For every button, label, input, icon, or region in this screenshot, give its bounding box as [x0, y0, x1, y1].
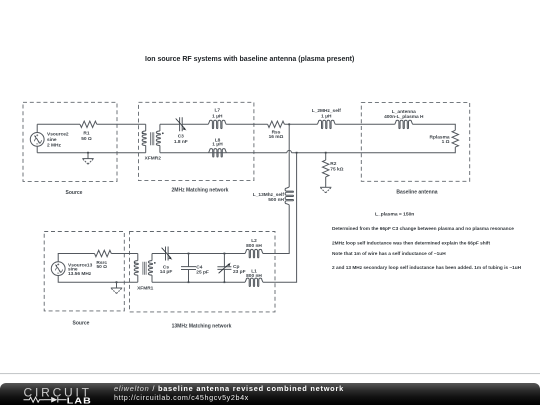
svg-text:800 nH: 800 nH: [246, 243, 262, 249]
wire source bottom bus: [37, 152, 146, 154]
svg-text:25 pF: 25 pF: [196, 270, 209, 276]
wire Rplasma bottom to bottom bus: [292, 147, 456, 153]
dashed box Source (top): [23, 102, 117, 181]
wire XFMR1 secondary bottom to L1: [152, 281, 245, 283]
svg-text:50 Ω: 50 Ω: [81, 136, 92, 142]
svg-text:sine: sine: [47, 137, 57, 143]
wire Rsrc to XFMR1: [111, 253, 138, 255]
wire C3 to L7: [182, 123, 208, 125]
inductor L8: [209, 138, 227, 157]
svg-text:Ion source RF systems with bas: Ion source RF systems with baseline ante…: [145, 56, 354, 63]
dashed box 13MHz Matching network: [130, 232, 276, 312]
wire vsource2 to R1: [37, 123, 80, 125]
svg-text:XFMR1: XFMR1: [137, 286, 154, 292]
transformer XFMR1: [134, 254, 156, 292]
node junction Cp top: [224, 253, 226, 255]
svg-text:500 nH: 500 nH: [268, 197, 284, 203]
svg-text:Cp: Cp: [233, 264, 239, 270]
svg-text:Determined from the 66pF C3 ch: Determined from the 66pF C3 change betwe…: [332, 226, 514, 232]
svg-text:L_13Mhz_self: L_13Mhz_self: [253, 192, 285, 198]
wire vsource13 top stub: [58, 254, 94, 262]
node junction bottom bus at vertical B: [296, 152, 298, 154]
footer bar: [0, 383, 540, 405]
wire L_antenna to Rplasma: [413, 124, 456, 130]
inductor L7: [208, 108, 226, 129]
resistor Rss: [268, 121, 285, 140]
dashed box Baseline antenna: [361, 103, 469, 182]
wire L_2MHz_self to L_antenna: [335, 123, 395, 125]
svg-text:Note that 1m of wire has a sel: Note that 1m of wire has a self inductan…: [332, 251, 446, 257]
wire XFMR2 secondary to C3: [160, 123, 180, 125]
svg-text:1 μH: 1 μH: [321, 114, 332, 120]
svg-text:50 Ω: 50 Ω: [96, 264, 107, 270]
svg-text:1.8 nF: 1.8 nF: [174, 139, 188, 145]
wire vertical B: [263, 153, 297, 283]
svg-text:R2: R2: [330, 161, 336, 167]
svg-text:2 and 13 MHz secondary loop se: 2 and 13 MHz secondary loop self inducta…: [332, 265, 522, 271]
node junction Cp bottom: [224, 281, 226, 283]
wire vertical A bottom: [263, 205, 289, 254]
svg-text:Source: Source: [66, 190, 83, 196]
inductor L2: [245, 238, 263, 258]
ground (under R2): [320, 187, 331, 193]
svg-text:Vsource2: Vsource2: [47, 131, 69, 137]
svg-text:1 μH: 1 μH: [212, 142, 223, 148]
node junction C4 bottom: [188, 281, 190, 283]
wire vsource2 top stub: [36, 124, 38, 132]
svg-text:2 MHz: 2 MHz: [47, 142, 61, 148]
variable capacitor Cs: [160, 247, 173, 276]
dashed box Source (bottom): [44, 232, 124, 311]
wire L7 to Rss: [226, 123, 268, 125]
capacitor C4: [181, 254, 209, 283]
voltage source Vsource13: [51, 262, 92, 277]
svg-text:1 Ω: 1 Ω: [442, 139, 450, 145]
node junction top bus: [288, 123, 290, 125]
svg-text:75 kΩ: 75 kΩ: [330, 166, 343, 172]
svg-text:L7: L7: [214, 108, 220, 114]
wire vertical A top (junction to L_13Mhz_self): [288, 124, 290, 187]
variable capacitor Cp: [217, 254, 245, 283]
wire R1 to XFMR2: [97, 123, 146, 125]
inductor L_13Mhz_self: [253, 187, 294, 205]
svg-text:400n-L_plasma H: 400n-L_plasma H: [384, 114, 424, 120]
svg-text:14 pF: 14 pF: [160, 269, 173, 275]
svg-text:C3: C3: [178, 134, 184, 140]
svg-text:13.56 MHz: 13.56 MHz: [68, 271, 92, 277]
canvas bottom hairline: [0, 373, 540, 376]
resistor Rsrc: [95, 250, 112, 270]
inductor L1: [245, 268, 263, 286]
voltage source Vsource2: [30, 131, 69, 148]
wire vsource2 bottom stub: [36, 146, 38, 152]
variable capacitor C3: [174, 117, 188, 145]
wire Rss to L_2MHz_self: [284, 123, 317, 125]
wire vsource13 bottom stub: [58, 276, 138, 283]
transformer XFMR2: [142, 124, 164, 161]
footer logo CIRCUIT LAB: [0, 383, 110, 405]
node ground junction (source bottom): [116, 281, 118, 283]
resistor Rplasma: [430, 130, 459, 147]
node ground junction (source top): [87, 152, 89, 154]
dashed box 2MHz Matching network: [139, 102, 254, 180]
inductor L_antenna: [384, 109, 424, 129]
svg-text:Baseline antenna: Baseline antenna: [396, 189, 437, 195]
svg-text:2MHz Matching network: 2MHz Matching network: [172, 188, 229, 194]
svg-text:L_2MHz_self: L_2MHz_self: [312, 108, 341, 114]
resistor R1: [80, 121, 97, 142]
wire XFMR1 secondary to Cs: [152, 253, 166, 255]
svg-text:800 nH: 800 nH: [246, 273, 262, 279]
ground (source bottom): [111, 282, 122, 293]
inductor L_2MHz_self: [312, 108, 341, 128]
svg-text:R1: R1: [83, 130, 89, 136]
node junction bottom bus at R2: [325, 152, 327, 154]
svg-text:XFMR2: XFMR2: [145, 156, 162, 162]
wire bottom bus to XFMR2: [160, 152, 287, 154]
svg-text:2MHz loop self inductance was: 2MHz loop self inductance was then deter…: [332, 240, 491, 246]
svg-text:1 μH: 1 μH: [212, 114, 223, 120]
svg-text:L_plasma = 150n: L_plasma = 150n: [375, 212, 414, 218]
ground (source top): [82, 153, 93, 164]
svg-text:Source: Source: [73, 320, 90, 326]
svg-text:16 mΩ: 16 mΩ: [269, 134, 284, 140]
node junction C4 top: [188, 253, 190, 255]
svg-text:23 pF: 23 pF: [233, 269, 246, 275]
wire Cs to L2: [168, 253, 245, 255]
resistor R2: [323, 153, 344, 188]
wire hop over vertical: [287, 150, 292, 152]
svg-text:13MHz Matching network: 13MHz Matching network: [172, 324, 232, 330]
svg-text:LAB: LAB: [67, 396, 92, 405]
